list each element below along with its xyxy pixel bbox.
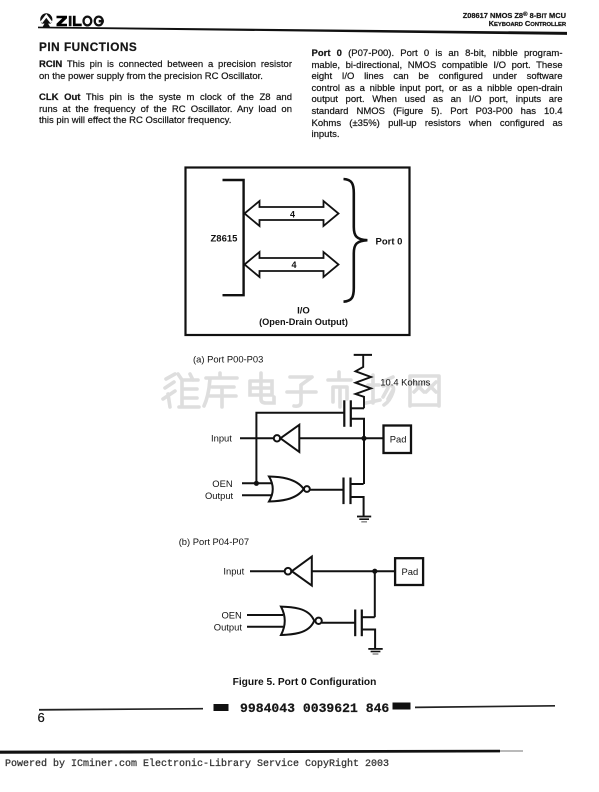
svg-text:OEN: OEN — [212, 478, 232, 489]
svg-text:(a) Port P00-P03: (a) Port P00-P03 — [193, 353, 263, 364]
svg-text:Pad: Pad — [390, 434, 407, 445]
svg-text:4: 4 — [290, 209, 295, 219]
svg-text:Output: Output — [205, 490, 234, 501]
svg-text:Input: Input — [211, 433, 232, 444]
svg-text:Z8615: Z8615 — [211, 234, 239, 245]
svg-text:10.4 Kohms: 10.4 Kohms — [380, 376, 430, 387]
svg-text:OEN: OEN — [222, 610, 242, 621]
svg-text:I/O: I/O — [297, 306, 310, 317]
svg-text:Port 0: Port 0 — [376, 236, 403, 247]
svg-text:Pad: Pad — [402, 566, 419, 577]
svg-text:4: 4 — [292, 260, 297, 270]
svg-text:Figure 5. Port 0 Configuratio: Figure 5. Port 0 Configuration — [233, 677, 377, 688]
svg-text:(b) Port P04-P07: (b) Port P04-P07 — [179, 536, 249, 547]
svg-text:Input: Input — [223, 566, 244, 577]
svg-text:(Open-Drain Output): (Open-Drain Output) — [259, 317, 348, 327]
svg-text:Output: Output — [214, 621, 243, 632]
